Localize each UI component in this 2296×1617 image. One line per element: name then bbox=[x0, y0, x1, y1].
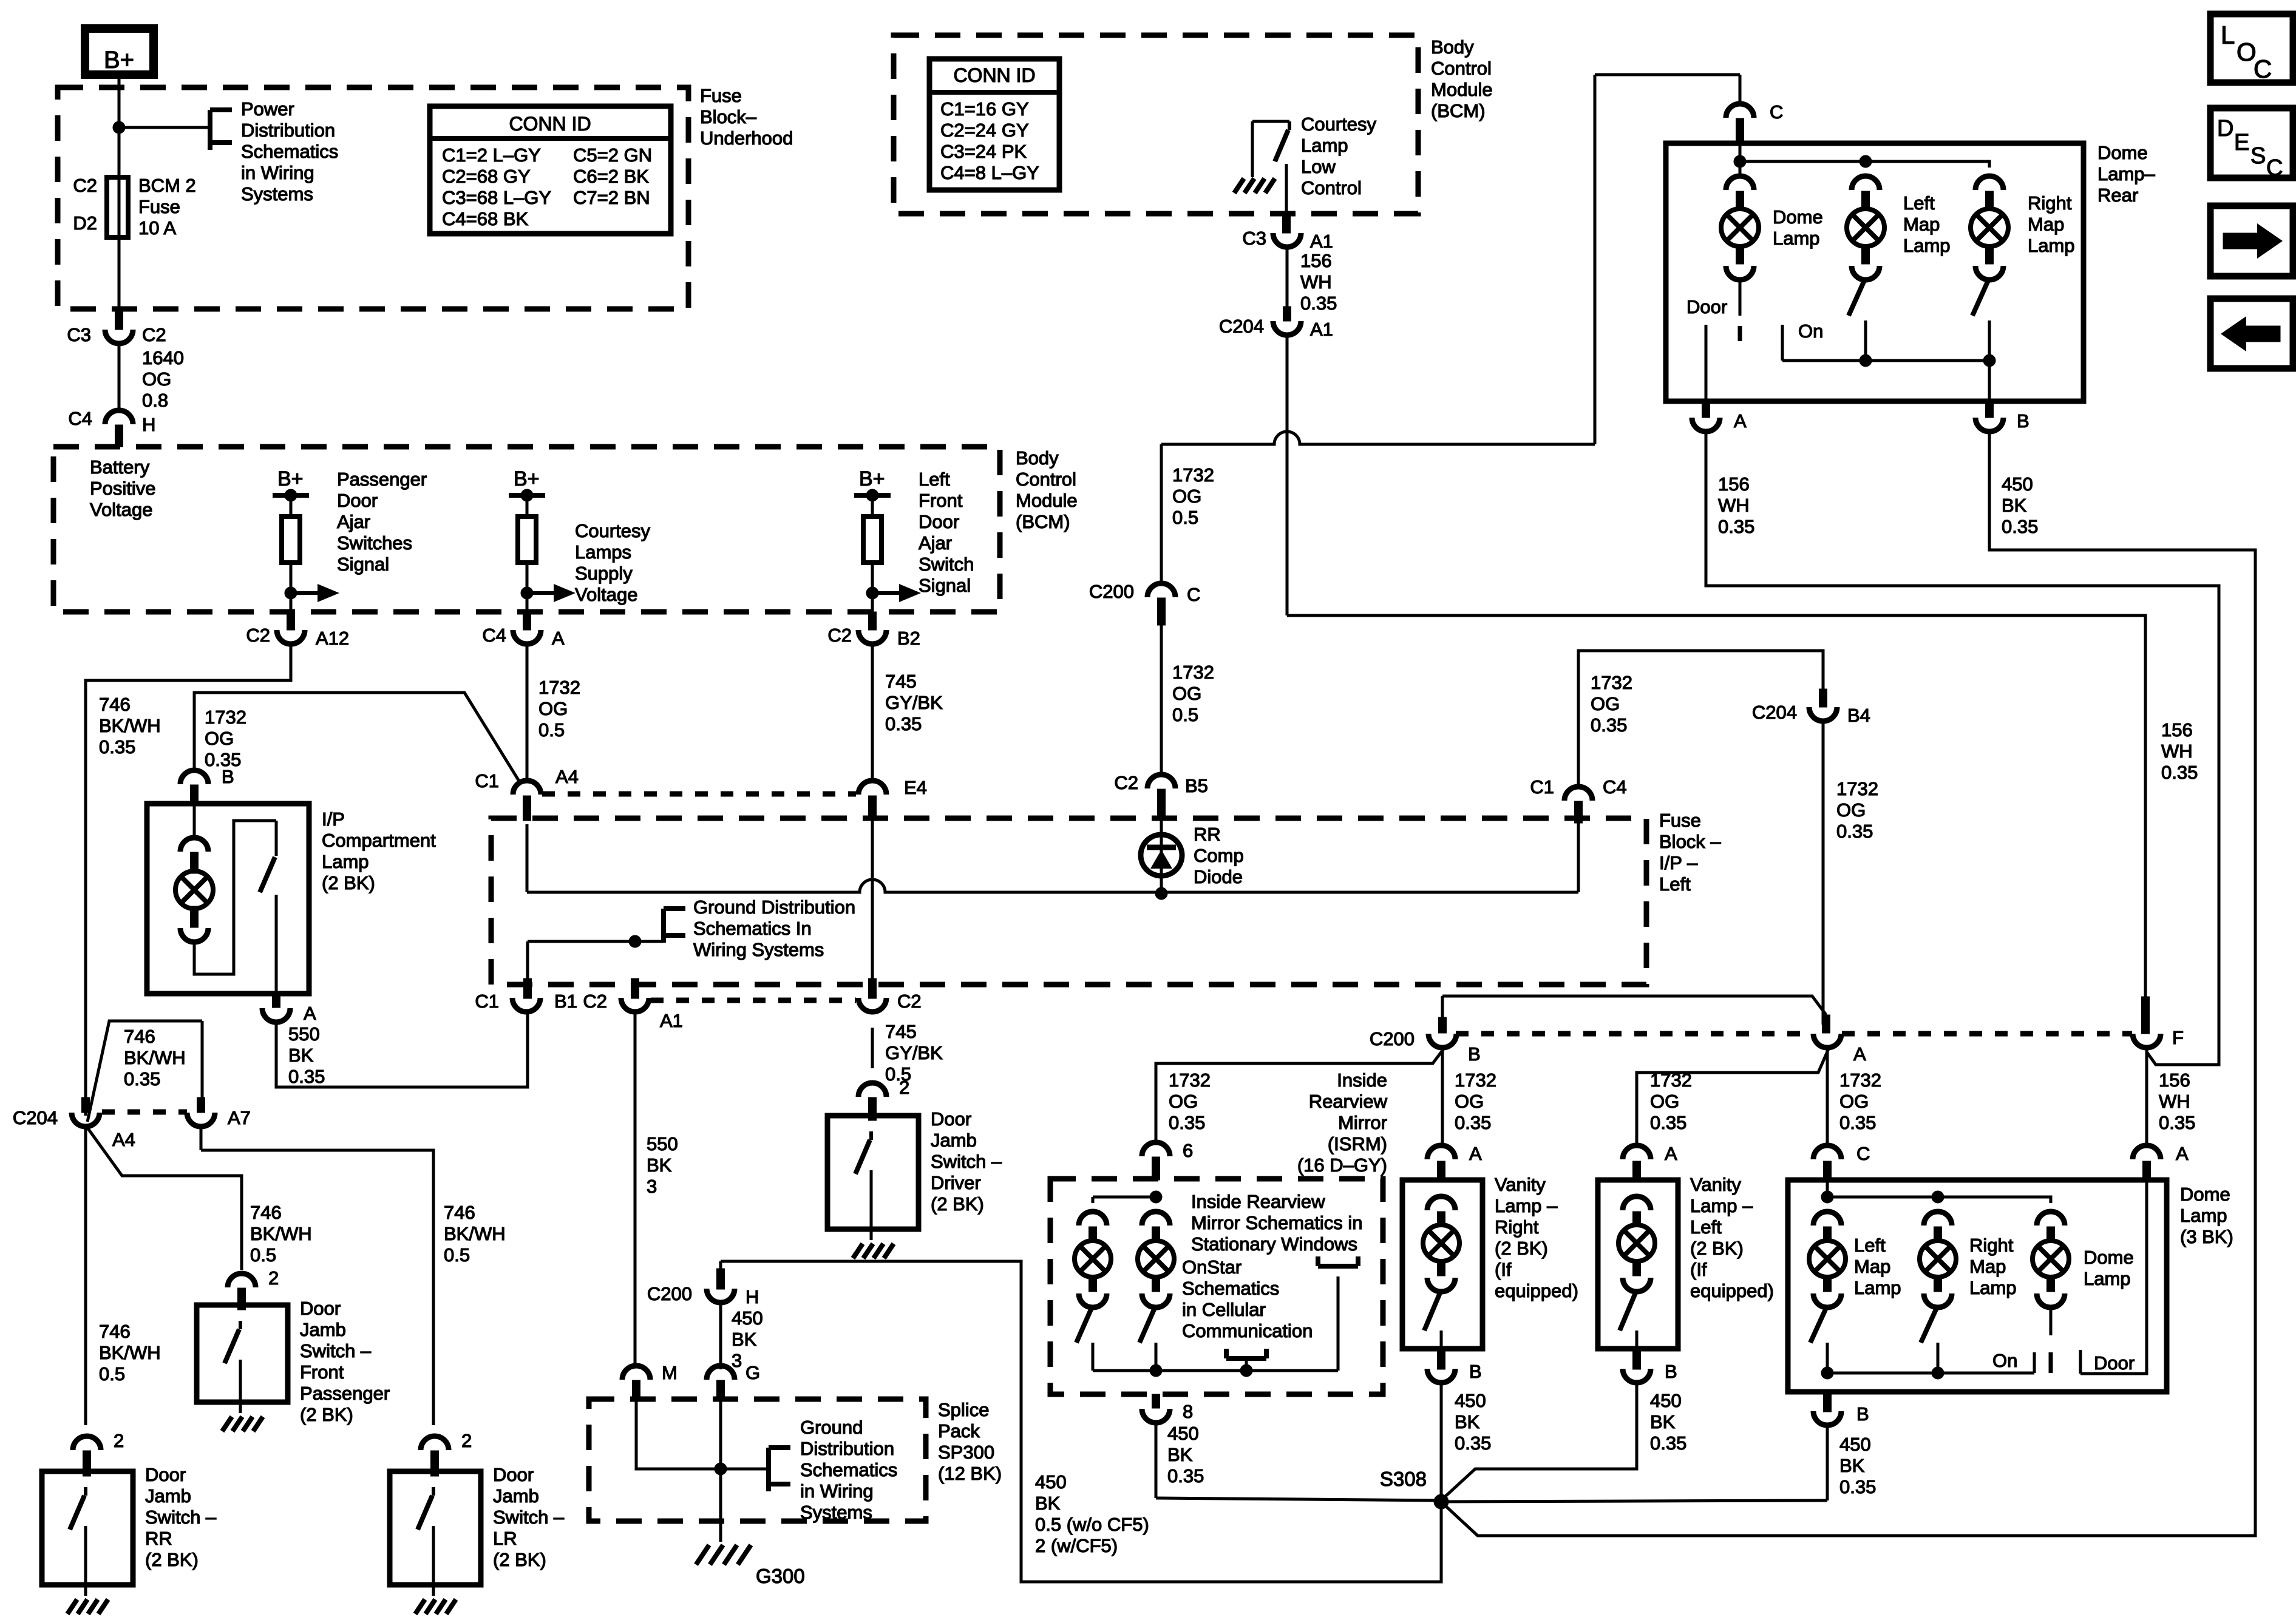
svg-text:Switch –: Switch – bbox=[300, 1340, 372, 1361]
svg-text:OG: OG bbox=[205, 728, 234, 749]
svg-text:0.35: 0.35 bbox=[124, 1068, 160, 1090]
svg-text:Voltage: Voltage bbox=[90, 499, 152, 520]
svg-text:CONN ID: CONN ID bbox=[509, 113, 591, 135]
svg-text:0.35: 0.35 bbox=[885, 713, 922, 734]
svg-text:Low: Low bbox=[1301, 156, 1336, 177]
svg-text:A4: A4 bbox=[112, 1129, 135, 1150]
svg-text:2: 2 bbox=[268, 1267, 279, 1289]
svg-text:C204: C204 bbox=[13, 1107, 58, 1128]
svg-text:Lamp–: Lamp– bbox=[2097, 163, 2156, 185]
svg-text:E4: E4 bbox=[904, 777, 927, 798]
svg-text:Vanity: Vanity bbox=[1495, 1174, 1546, 1195]
svg-text:OG: OG bbox=[1591, 693, 1620, 714]
svg-text:in Wiring: in Wiring bbox=[800, 1480, 874, 1502]
svg-text:Body: Body bbox=[1431, 36, 1474, 58]
svg-text:C4=68 BK: C4=68 BK bbox=[442, 208, 529, 229]
svg-text:BK: BK bbox=[1650, 1411, 1676, 1432]
svg-text:Ground Distribution: Ground Distribution bbox=[693, 897, 855, 918]
svg-text:B4: B4 bbox=[1847, 705, 1870, 726]
svg-text:C4=8 L–GY: C4=8 L–GY bbox=[940, 162, 1039, 183]
svg-text:C: C bbox=[1856, 1143, 1870, 1164]
svg-text:Signal: Signal bbox=[919, 575, 971, 596]
svg-text:C2: C2 bbox=[1114, 772, 1138, 793]
svg-text:0.5: 0.5 bbox=[250, 1244, 276, 1266]
svg-text:0.35: 0.35 bbox=[1839, 1112, 1876, 1133]
svg-text:1640: 1640 bbox=[142, 347, 184, 368]
svg-text:S: S bbox=[2250, 143, 2266, 169]
svg-text:C: C bbox=[1770, 101, 1783, 123]
svg-text:Supply: Supply bbox=[575, 563, 633, 584]
svg-text:Jamb: Jamb bbox=[931, 1130, 977, 1151]
svg-text:in Wiring: in Wiring bbox=[241, 162, 314, 183]
svg-text:Lamp: Lamp bbox=[322, 851, 369, 872]
svg-text:A: A bbox=[552, 628, 565, 649]
svg-text:Block –: Block – bbox=[1659, 831, 1721, 852]
svg-text:B5: B5 bbox=[1185, 775, 1208, 796]
svg-text:BK: BK bbox=[1839, 1455, 1865, 1476]
svg-text:0.35: 0.35 bbox=[288, 1066, 325, 1087]
svg-text:Jamb: Jamb bbox=[300, 1319, 346, 1340]
svg-text:C1: C1 bbox=[1530, 776, 1554, 798]
svg-text:OG: OG bbox=[1455, 1091, 1484, 1112]
svg-text:Wiring Systems: Wiring Systems bbox=[693, 939, 824, 960]
svg-text:WH: WH bbox=[2159, 1091, 2190, 1112]
svg-text:Control: Control bbox=[1301, 177, 1362, 198]
svg-text:Schematics: Schematics bbox=[241, 141, 338, 162]
svg-text:C2=68 GY: C2=68 GY bbox=[442, 166, 531, 187]
svg-text:450: 450 bbox=[1455, 1390, 1486, 1411]
svg-text:Left: Left bbox=[1903, 192, 1935, 214]
svg-text:Compartment: Compartment bbox=[322, 830, 436, 851]
svg-text:1732: 1732 bbox=[1172, 464, 1214, 486]
svg-text:Body: Body bbox=[1016, 447, 1059, 469]
svg-text:Door: Door bbox=[300, 1298, 341, 1319]
svg-text:H: H bbox=[746, 1286, 759, 1307]
svg-text:8: 8 bbox=[1183, 1401, 1193, 1422]
svg-text:Lamp –: Lamp – bbox=[1690, 1195, 1753, 1216]
svg-text:(2 BK): (2 BK) bbox=[1690, 1238, 1744, 1259]
svg-text:Pack: Pack bbox=[938, 1420, 980, 1442]
svg-text:C2: C2 bbox=[583, 991, 607, 1012]
svg-text:Jamb: Jamb bbox=[145, 1485, 191, 1507]
svg-text:Door: Door bbox=[145, 1464, 186, 1485]
svg-text:Inside: Inside bbox=[1337, 1070, 1387, 1091]
svg-text:B+: B+ bbox=[514, 467, 540, 490]
svg-text:M: M bbox=[662, 1362, 678, 1383]
svg-text:2: 2 bbox=[461, 1430, 472, 1451]
svg-text:C1=2 L–GY: C1=2 L–GY bbox=[442, 144, 541, 166]
svg-text:C200: C200 bbox=[1089, 581, 1134, 602]
svg-text:Map: Map bbox=[1903, 214, 1940, 235]
svg-text:Dome: Dome bbox=[2084, 1247, 2134, 1268]
svg-text:Systems: Systems bbox=[241, 183, 313, 205]
svg-text:Passenger: Passenger bbox=[300, 1383, 390, 1404]
svg-text:A1: A1 bbox=[660, 1010, 683, 1031]
svg-text:745: 745 bbox=[885, 671, 917, 692]
svg-text:Door: Door bbox=[2094, 1352, 2135, 1374]
svg-text:Lamp: Lamp bbox=[1969, 1277, 2017, 1298]
svg-text:SP300: SP300 bbox=[938, 1442, 994, 1463]
svg-text:Door: Door bbox=[919, 511, 959, 532]
svg-text:Inside Rearview: Inside Rearview bbox=[1191, 1191, 1325, 1212]
svg-text:0.35: 0.35 bbox=[1455, 1432, 1491, 1454]
svg-text:Door: Door bbox=[337, 490, 378, 511]
svg-text:C2: C2 bbox=[897, 991, 922, 1012]
svg-text:0.35: 0.35 bbox=[1167, 1465, 1204, 1486]
svg-text:Door: Door bbox=[931, 1108, 971, 1130]
svg-text:1732: 1732 bbox=[1836, 778, 1878, 799]
svg-text:Switch –: Switch – bbox=[493, 1507, 565, 1528]
svg-text:BK: BK bbox=[732, 1329, 757, 1350]
svg-text:BK/WH: BK/WH bbox=[99, 715, 161, 736]
svg-text:Left: Left bbox=[1690, 1216, 1722, 1238]
svg-text:C5=2 GN: C5=2 GN bbox=[573, 144, 652, 166]
svg-text:BK/WH: BK/WH bbox=[444, 1223, 506, 1244]
svg-text:0.5: 0.5 bbox=[538, 719, 565, 741]
svg-text:0.5: 0.5 bbox=[1172, 507, 1198, 528]
svg-text:RR: RR bbox=[1194, 824, 1221, 845]
svg-text:0.5: 0.5 bbox=[444, 1244, 470, 1266]
svg-text:C4: C4 bbox=[68, 408, 92, 429]
svg-text:2: 2 bbox=[899, 1077, 909, 1098]
svg-text:0.35: 0.35 bbox=[1718, 516, 1754, 537]
svg-text:Lamp: Lamp bbox=[2084, 1268, 2131, 1289]
svg-text:Lamp: Lamp bbox=[1301, 135, 1348, 156]
svg-text:Jamb: Jamb bbox=[493, 1485, 539, 1507]
svg-text:156: 156 bbox=[1718, 473, 1750, 495]
svg-text:BK/WH: BK/WH bbox=[124, 1047, 186, 1068]
svg-text:550: 550 bbox=[288, 1023, 320, 1045]
svg-text:(2 BK): (2 BK) bbox=[931, 1193, 984, 1215]
svg-text:Positive: Positive bbox=[90, 478, 156, 499]
svg-text:0.35: 0.35 bbox=[2161, 762, 2198, 783]
svg-text:C1: C1 bbox=[475, 991, 499, 1012]
svg-text:in Cellular: in Cellular bbox=[1182, 1299, 1266, 1320]
svg-text:BK/WH: BK/WH bbox=[250, 1223, 312, 1244]
svg-text:Switch –: Switch – bbox=[145, 1507, 217, 1528]
svg-text:450: 450 bbox=[732, 1307, 763, 1329]
svg-text:Map: Map bbox=[1969, 1256, 2006, 1277]
svg-text:B: B bbox=[1856, 1403, 1869, 1425]
svg-text:Block–: Block– bbox=[700, 106, 757, 127]
svg-text:1732: 1732 bbox=[1839, 1070, 1881, 1091]
svg-text:(ISRM): (ISRM) bbox=[1328, 1133, 1387, 1154]
svg-text:6: 6 bbox=[1183, 1140, 1193, 1161]
svg-text:BK: BK bbox=[288, 1045, 314, 1066]
svg-text:450: 450 bbox=[1167, 1423, 1199, 1444]
svg-text:1732: 1732 bbox=[205, 707, 246, 728]
svg-text:B2: B2 bbox=[897, 628, 920, 649]
svg-text:BK: BK bbox=[647, 1154, 672, 1176]
svg-text:746: 746 bbox=[124, 1026, 155, 1047]
svg-text:C204: C204 bbox=[1752, 702, 1797, 723]
svg-text:Rear: Rear bbox=[2097, 185, 2138, 206]
svg-text:B: B bbox=[1665, 1361, 1677, 1382]
svg-text:Courtesy: Courtesy bbox=[575, 520, 651, 541]
svg-text:0.35: 0.35 bbox=[2159, 1112, 2195, 1133]
svg-text:WH: WH bbox=[1300, 271, 1332, 293]
svg-text:Module: Module bbox=[1016, 490, 1078, 511]
svg-text:C6=2 BK: C6=2 BK bbox=[573, 166, 649, 187]
svg-text:Signal: Signal bbox=[337, 554, 389, 575]
svg-text:Fuse: Fuse bbox=[138, 196, 180, 217]
svg-text:BCM 2: BCM 2 bbox=[138, 175, 196, 196]
svg-text:A: A bbox=[2176, 1143, 2189, 1164]
svg-text:Right: Right bbox=[1969, 1235, 2014, 1256]
svg-text:(12 BK): (12 BK) bbox=[938, 1463, 1002, 1484]
svg-text:B+: B+ bbox=[104, 47, 134, 73]
svg-text:BK: BK bbox=[2002, 495, 2027, 516]
svg-text:Driver: Driver bbox=[931, 1172, 981, 1193]
svg-text:A1: A1 bbox=[1310, 231, 1333, 252]
svg-text:A: A bbox=[1734, 410, 1747, 432]
svg-text:0.8: 0.8 bbox=[142, 390, 168, 411]
svg-text:(2 BK): (2 BK) bbox=[322, 872, 375, 893]
svg-text:156: 156 bbox=[2159, 1070, 2190, 1091]
svg-text:Vanity: Vanity bbox=[1690, 1174, 1741, 1195]
svg-text:1732: 1732 bbox=[1169, 1070, 1211, 1091]
svg-text:OG: OG bbox=[1169, 1091, 1198, 1112]
svg-text:D2: D2 bbox=[73, 212, 97, 234]
svg-text:Underhood: Underhood bbox=[700, 127, 793, 149]
svg-text:C2: C2 bbox=[246, 625, 270, 646]
svg-text:Comp: Comp bbox=[1194, 845, 1244, 866]
svg-text:2 (w/CF5): 2 (w/CF5) bbox=[1035, 1535, 1118, 1556]
svg-text:A: A bbox=[1853, 1043, 1866, 1065]
svg-text:0.35: 0.35 bbox=[1169, 1112, 1205, 1133]
svg-text:746: 746 bbox=[250, 1202, 282, 1223]
svg-text:A12: A12 bbox=[316, 628, 349, 649]
svg-text:(2 BK): (2 BK) bbox=[145, 1549, 199, 1570]
svg-text:1732: 1732 bbox=[1591, 672, 1632, 693]
svg-text:B+: B+ bbox=[859, 467, 885, 490]
svg-text:Fuse: Fuse bbox=[1659, 810, 1701, 831]
svg-text:L: L bbox=[2221, 21, 2235, 49]
svg-text:RR: RR bbox=[145, 1528, 172, 1549]
svg-text:S308: S308 bbox=[1380, 1468, 1427, 1490]
svg-text:WH: WH bbox=[1718, 495, 1750, 516]
svg-text:Switch: Switch bbox=[919, 554, 974, 575]
svg-text:Lamp: Lamp bbox=[1903, 235, 1951, 256]
svg-text:C3: C3 bbox=[1242, 228, 1266, 249]
svg-text:Door: Door bbox=[1686, 296, 1727, 317]
svg-text:3: 3 bbox=[647, 1176, 657, 1197]
svg-text:Mirror: Mirror bbox=[1338, 1112, 1387, 1133]
svg-text:Right: Right bbox=[1495, 1216, 1539, 1238]
svg-text:C4: C4 bbox=[1603, 776, 1627, 798]
svg-text:(BCM): (BCM) bbox=[1016, 511, 1070, 532]
svg-text:C200: C200 bbox=[647, 1283, 692, 1304]
svg-text:Fuse: Fuse bbox=[700, 85, 742, 106]
svg-text:OG: OG bbox=[1650, 1091, 1679, 1112]
svg-text:746: 746 bbox=[99, 694, 131, 715]
svg-text:(BCM): (BCM) bbox=[1431, 100, 1486, 121]
svg-text:C3=68 L–GY: C3=68 L–GY bbox=[442, 187, 551, 208]
svg-text:C3=24 PK: C3=24 PK bbox=[940, 141, 1027, 162]
svg-text:F: F bbox=[2172, 1027, 2184, 1048]
svg-text:Mirror Schematics in: Mirror Schematics in bbox=[1191, 1212, 1363, 1233]
svg-text:Control: Control bbox=[1431, 58, 1492, 79]
svg-text:H: H bbox=[142, 414, 155, 435]
svg-text:Splice: Splice bbox=[938, 1399, 989, 1420]
svg-text:0.35: 0.35 bbox=[1650, 1432, 1686, 1454]
svg-text:Module: Module bbox=[1431, 79, 1493, 100]
svg-text:Ajar: Ajar bbox=[919, 532, 952, 554]
svg-text:0.35: 0.35 bbox=[1836, 821, 1873, 842]
svg-text:(2 BK): (2 BK) bbox=[493, 1549, 546, 1570]
svg-text:Distribution: Distribution bbox=[800, 1438, 894, 1459]
svg-text:Left: Left bbox=[919, 469, 950, 490]
svg-text:Map: Map bbox=[2028, 214, 2064, 235]
svg-text:Communication: Communication bbox=[1182, 1320, 1313, 1341]
svg-text:1732: 1732 bbox=[1455, 1070, 1496, 1091]
svg-text:C2: C2 bbox=[73, 175, 97, 196]
svg-text:Schematics In: Schematics In bbox=[693, 918, 812, 939]
svg-text:C: C bbox=[2254, 55, 2272, 83]
svg-text:OG: OG bbox=[1839, 1091, 1869, 1112]
svg-text:0.35: 0.35 bbox=[1839, 1476, 1876, 1497]
svg-text:0.35: 0.35 bbox=[99, 736, 135, 758]
svg-text:Stationary Windows: Stationary Windows bbox=[1191, 1233, 1357, 1255]
svg-text:(2 BK): (2 BK) bbox=[1495, 1238, 1548, 1259]
svg-text:0.35: 0.35 bbox=[1455, 1112, 1491, 1133]
svg-text:C7=2 BN: C7=2 BN bbox=[573, 187, 650, 208]
svg-text:B+: B+ bbox=[277, 467, 304, 490]
svg-text:OG: OG bbox=[538, 698, 568, 719]
svg-text:equipped): equipped) bbox=[1495, 1280, 1578, 1301]
svg-text:Front: Front bbox=[919, 490, 963, 511]
svg-text:156: 156 bbox=[2161, 719, 2193, 741]
svg-text:G300: G300 bbox=[756, 1565, 805, 1587]
svg-text:C2: C2 bbox=[142, 324, 166, 345]
svg-text:Ajar: Ajar bbox=[337, 511, 370, 532]
svg-text:(16 D–GY): (16 D–GY) bbox=[1297, 1154, 1387, 1176]
svg-text:Power: Power bbox=[241, 98, 294, 120]
svg-text:450: 450 bbox=[1650, 1390, 1682, 1411]
svg-text:Courtesy: Courtesy bbox=[1301, 114, 1377, 135]
svg-text:Lamp –: Lamp – bbox=[1495, 1195, 1558, 1216]
svg-text:I/P: I/P bbox=[322, 808, 345, 830]
svg-text:B: B bbox=[1469, 1361, 1482, 1382]
svg-text:450: 450 bbox=[1839, 1434, 1871, 1455]
svg-text:0.5: 0.5 bbox=[1172, 704, 1198, 725]
svg-text:0.35: 0.35 bbox=[205, 749, 241, 770]
svg-text:Voltage: Voltage bbox=[575, 584, 637, 605]
svg-text:A: A bbox=[1665, 1143, 1677, 1164]
svg-text:Dome: Dome bbox=[1773, 206, 1823, 228]
svg-text:Diode: Diode bbox=[1194, 866, 1243, 887]
svg-text:Left: Left bbox=[1659, 873, 1691, 895]
svg-text:equipped): equipped) bbox=[1690, 1280, 1774, 1301]
svg-text:BK: BK bbox=[1167, 1444, 1193, 1465]
svg-text:0.35: 0.35 bbox=[2002, 516, 2038, 537]
svg-text:745: 745 bbox=[885, 1021, 917, 1042]
svg-text:450: 450 bbox=[1035, 1471, 1067, 1493]
svg-text:GY/BK: GY/BK bbox=[885, 692, 943, 713]
svg-text:Schematics: Schematics bbox=[1182, 1278, 1279, 1299]
svg-text:Schematics: Schematics bbox=[800, 1459, 897, 1480]
svg-text:Switches: Switches bbox=[337, 532, 412, 554]
svg-text:550: 550 bbox=[647, 1133, 678, 1154]
svg-text:WH: WH bbox=[2161, 741, 2193, 762]
svg-text:0.35: 0.35 bbox=[1591, 714, 1627, 736]
svg-text:Dome: Dome bbox=[2180, 1184, 2230, 1205]
svg-text:Lamp: Lamp bbox=[1773, 228, 1820, 249]
svg-text:C1=16 GY: C1=16 GY bbox=[940, 98, 1029, 120]
svg-text:A: A bbox=[1469, 1143, 1482, 1164]
svg-text:0.5 (w/o CF5): 0.5 (w/o CF5) bbox=[1035, 1514, 1149, 1535]
svg-text:1732: 1732 bbox=[1172, 662, 1214, 683]
svg-text:A7: A7 bbox=[228, 1107, 251, 1128]
svg-text:0.35: 0.35 bbox=[1650, 1112, 1686, 1133]
svg-text:B1: B1 bbox=[554, 991, 577, 1012]
svg-text:Front: Front bbox=[300, 1361, 344, 1383]
svg-text:(If: (If bbox=[1690, 1259, 1707, 1280]
svg-text:156: 156 bbox=[1300, 250, 1332, 271]
svg-text:Battery: Battery bbox=[90, 456, 150, 478]
svg-text:746: 746 bbox=[444, 1202, 475, 1223]
svg-text:0.5: 0.5 bbox=[99, 1363, 125, 1385]
svg-text:Passenger: Passenger bbox=[337, 469, 427, 490]
svg-text:C200: C200 bbox=[1370, 1028, 1415, 1049]
svg-text:3: 3 bbox=[732, 1350, 742, 1371]
svg-text:OG: OG bbox=[142, 368, 171, 390]
svg-text:OG: OG bbox=[1172, 683, 1201, 704]
svg-text:Systems: Systems bbox=[800, 1502, 872, 1523]
svg-text:A: A bbox=[304, 1003, 316, 1024]
svg-text:BK: BK bbox=[1035, 1493, 1061, 1514]
svg-text:(If: (If bbox=[1495, 1259, 1512, 1280]
svg-text:Door: Door bbox=[493, 1464, 534, 1485]
svg-text:GY/BK: GY/BK bbox=[885, 1042, 943, 1063]
svg-text:Right: Right bbox=[2028, 192, 2072, 214]
svg-text:C2: C2 bbox=[827, 625, 852, 646]
svg-text:Switch –: Switch – bbox=[931, 1151, 1002, 1172]
svg-text:LR: LR bbox=[493, 1528, 517, 1549]
svg-text:I/P –: I/P – bbox=[1659, 852, 1698, 873]
svg-text:BK: BK bbox=[1455, 1411, 1480, 1432]
svg-text:0.35: 0.35 bbox=[1300, 293, 1337, 314]
svg-text:Rearview: Rearview bbox=[1309, 1091, 1388, 1112]
svg-text:G: G bbox=[746, 1362, 760, 1383]
svg-text:1732: 1732 bbox=[1650, 1070, 1692, 1091]
svg-text:OG: OG bbox=[1172, 486, 1201, 507]
svg-text:OnStar: OnStar bbox=[1182, 1256, 1241, 1278]
svg-text:Lamp: Lamp bbox=[2028, 235, 2075, 256]
svg-text:A4: A4 bbox=[555, 766, 579, 787]
svg-text:450: 450 bbox=[2002, 473, 2033, 495]
svg-text:B: B bbox=[1468, 1043, 1481, 1065]
svg-text:Lamp: Lamp bbox=[2180, 1205, 2227, 1226]
svg-text:A1: A1 bbox=[1310, 319, 1333, 340]
svg-text:Lamps: Lamps bbox=[575, 541, 631, 563]
svg-text:C: C bbox=[2266, 155, 2283, 181]
svg-text:On: On bbox=[1798, 320, 1823, 342]
svg-text:D: D bbox=[2217, 116, 2233, 141]
svg-text:On: On bbox=[1992, 1350, 2017, 1371]
svg-text:OG: OG bbox=[1836, 799, 1866, 821]
svg-text:C2=24 GY: C2=24 GY bbox=[940, 120, 1029, 141]
svg-text:Dome: Dome bbox=[2097, 142, 2148, 163]
svg-text:10 A: 10 A bbox=[138, 217, 176, 239]
svg-text:746: 746 bbox=[99, 1321, 131, 1342]
svg-text:CONN ID: CONN ID bbox=[953, 64, 1035, 86]
svg-text:Ground: Ground bbox=[800, 1417, 863, 1438]
svg-text:C3: C3 bbox=[67, 324, 91, 345]
svg-text:C1: C1 bbox=[475, 770, 499, 792]
svg-text:E: E bbox=[2234, 130, 2249, 155]
svg-text:(3 BK): (3 BK) bbox=[2180, 1226, 2233, 1247]
